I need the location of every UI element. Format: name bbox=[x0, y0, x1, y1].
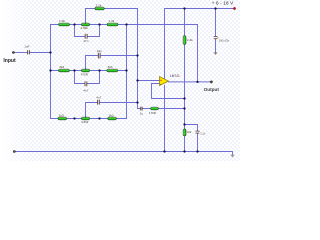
pot P3 4.99k bbox=[81, 117, 90, 124]
terminal output bbox=[210, 81, 212, 83]
svg-text:4.99k: 4.99k bbox=[81, 120, 89, 124]
junction node X with +input bbox=[136, 79, 138, 81]
svg-text:1u: 1u bbox=[140, 111, 144, 115]
svg-text:2.2k: 2.2k bbox=[96, 4, 102, 8]
junction supply rail at 100u bbox=[214, 7, 216, 9]
wire right bus bbox=[126, 25, 128, 119]
op-amp U1 bbox=[160, 74, 180, 86]
resistor R2c 3k3 bbox=[107, 65, 118, 72]
svg-text:4.99k: 4.99k bbox=[81, 26, 89, 30]
wire pot3 wiper to 4n7 bbox=[86, 103, 98, 118]
terminal +V (red) bbox=[233, 7, 235, 9]
capacitor 100u supply bypass bbox=[214, 36, 230, 42]
resistor R1c 1.0k bbox=[107, 19, 118, 26]
svg-text:47n: 47n bbox=[83, 39, 88, 43]
junction row2 at left bus bbox=[49, 69, 51, 71]
svg-text:1.0k: 1.0k bbox=[59, 19, 65, 23]
junction node X with 4n7 branch bbox=[136, 101, 138, 103]
junction row3 right of pot P3 bbox=[98, 117, 100, 119]
junction row1 at right bus bbox=[125, 23, 127, 25]
capacitor 22n bbox=[97, 49, 102, 58]
svg-text:LM741: LM741 bbox=[170, 74, 180, 78]
junction supply rail at bias divider bbox=[183, 7, 185, 9]
resistor R1a 1.0k bbox=[59, 19, 70, 26]
wire 2.2u branch bbox=[185, 125, 198, 131]
junction row1 right of pot P1 bbox=[98, 23, 100, 25]
wire opamp V+ stub bbox=[164, 9, 166, 80]
wire 4n7 bridge bbox=[75, 71, 85, 84]
wire pot2 wiper to 22n bbox=[86, 56, 98, 69]
resistor R3a 1k0 bbox=[58, 113, 67, 120]
capacitor 4n7 lower bbox=[96, 96, 101, 105]
terminal ground bottom-left bbox=[13, 150, 15, 152]
svg-text:3k3: 3k3 bbox=[59, 65, 64, 69]
capacitor C input 1uF bbox=[24, 45, 29, 55]
wire opamp V- stub bbox=[164, 85, 166, 151]
pot P2 470R bbox=[81, 69, 90, 77]
junction row2 right of pot P2 bbox=[98, 69, 100, 71]
junction inverting hook at bias line bbox=[183, 97, 185, 99]
resistor bias lower 10k (vertical) bbox=[183, 129, 192, 136]
svg-text:170R: 170R bbox=[149, 111, 157, 115]
svg-text:Input: Input bbox=[3, 58, 16, 64]
svg-text:470R: 470R bbox=[81, 72, 89, 76]
svg-text:1uF: 1uF bbox=[24, 45, 29, 49]
wire 100u supply cap bbox=[215, 9, 217, 37]
svg-text:4n7: 4n7 bbox=[83, 88, 88, 92]
wire left bus bbox=[50, 25, 52, 119]
wire input row bbox=[14, 52, 27, 54]
junction row2 left of pot P2 bbox=[73, 69, 75, 71]
resistor R 170R (feedback leg) bbox=[149, 107, 159, 115]
resistor R2a 3k3 bbox=[59, 65, 70, 72]
svg-text:4n7: 4n7 bbox=[96, 96, 101, 100]
junction output node bbox=[196, 81, 198, 83]
capacitor 2.2u bias bypass bbox=[196, 130, 206, 135]
junction row1 left of pot P1 bbox=[73, 23, 75, 25]
wire bottom rail bbox=[14, 152, 232, 156]
wire row1 feedback bbox=[51, 25, 198, 82]
svg-text:Output: Output bbox=[204, 87, 220, 92]
svg-text:+ 6 - 18 V: + 6 - 18 V bbox=[212, 0, 234, 5]
wire row3 bbox=[51, 118, 127, 120]
wire bias divider vertical bbox=[184, 9, 186, 152]
wire opamp noninverting input bbox=[138, 80, 160, 82]
svg-text:1.0k: 1.0k bbox=[109, 19, 115, 23]
pot P1 4.99k bbox=[81, 23, 90, 30]
junction ground rail at 2.2u bbox=[196, 150, 198, 152]
background speckle texture bbox=[0, 0, 240, 161]
terminal input bbox=[12, 51, 14, 53]
capacitor 47n bbox=[83, 34, 88, 43]
wire row2 bbox=[51, 70, 127, 72]
svg-text:2.2u: 2.2u bbox=[200, 133, 205, 136]
wire 1u-170R branch to inverting node bbox=[143, 108, 185, 110]
svg-text:100u 25v: 100u 25v bbox=[219, 40, 230, 43]
junction ground rail at opamp V- bbox=[163, 150, 165, 152]
ground symbol near 100u bbox=[213, 52, 217, 55]
svg-text:1k0: 1k0 bbox=[59, 113, 64, 117]
svg-text:10k: 10k bbox=[187, 130, 192, 134]
ground symbol bottom right bbox=[230, 155, 234, 158]
svg-text:22n: 22n bbox=[97, 49, 102, 53]
wire center vertical node X bbox=[138, 9, 141, 109]
wire pot1 wiper to 2.2k branch bbox=[86, 9, 138, 23]
svg-text:-: - bbox=[160, 82, 161, 86]
junction ground rail at bias line bbox=[183, 150, 185, 152]
svg-text:2.2k: 2.2k bbox=[187, 38, 193, 42]
resistor R top 2.2k bbox=[95, 4, 104, 10]
capacitor 1u (feedback leg) bbox=[140, 107, 144, 116]
svg-text:3k3: 3k3 bbox=[108, 65, 113, 69]
junction input at left bus bbox=[49, 51, 51, 53]
wire 47n bridge bbox=[75, 25, 85, 37]
wire inverting input hook bbox=[152, 84, 185, 99]
resistor R3c 1k0 bbox=[108, 113, 117, 120]
junction row3 left of pot P3 bbox=[73, 117, 75, 119]
capacitor 4n7 row2 bbox=[83, 81, 88, 92]
resistor bias upper 2.2k (vertical) bbox=[183, 36, 193, 45]
wire supply rail bbox=[165, 8, 235, 10]
svg-text:1k0: 1k0 bbox=[109, 113, 114, 117]
junction 170R branch at bias line bbox=[183, 107, 185, 109]
junction node X with 22n branch bbox=[136, 54, 138, 56]
wire output bbox=[168, 81, 210, 83]
junction bias line at 2.2u branch bbox=[183, 123, 185, 125]
junction row2 at right bus bbox=[125, 69, 127, 71]
